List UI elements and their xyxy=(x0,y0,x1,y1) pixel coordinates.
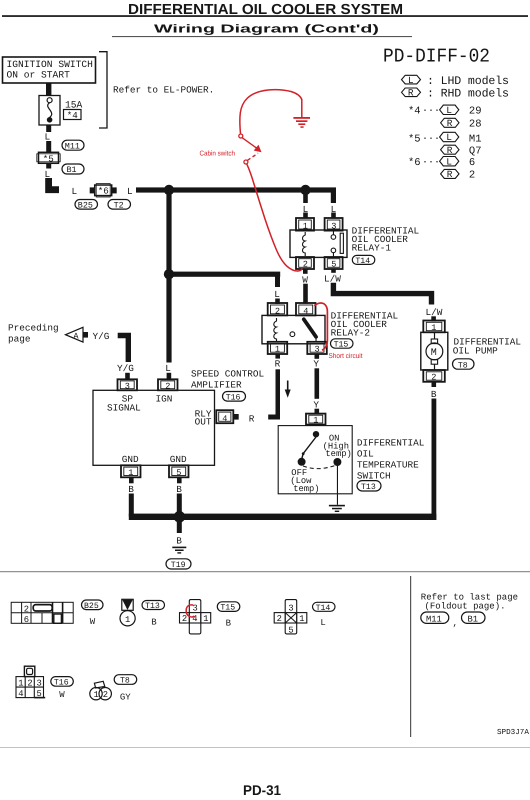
connector B25 oval xyxy=(82,600,104,611)
connector T16 oval bottom xyxy=(51,677,74,688)
connector T14 oval xyxy=(352,255,375,266)
wire bus1 right corner down xyxy=(331,190,336,203)
svg-text:1: 1 xyxy=(18,679,23,689)
svg-text:B1: B1 xyxy=(67,165,77,175)
svg-text:B: B xyxy=(431,389,437,400)
relay2 body xyxy=(262,315,325,343)
amplifier pin 5 gnd xyxy=(169,465,189,478)
svg-text:29: 29 xyxy=(469,106,482,118)
svg-text:IGN: IGN xyxy=(156,393,173,404)
svg-text:R: R xyxy=(447,169,453,180)
svg-text:M11: M11 xyxy=(65,141,80,151)
svg-text:T13: T13 xyxy=(145,602,160,611)
wire stub relay1 pin1 xyxy=(303,213,308,219)
svg-text:Wiring Diagram (Cont'd): Wiring Diagram (Cont'd) xyxy=(154,22,379,35)
svg-text:W: W xyxy=(59,690,65,700)
connector T14 face cross xyxy=(274,600,307,636)
relay2 pin 4 top xyxy=(296,303,316,316)
label ON high temp xyxy=(323,434,352,460)
svg-text:1: 1 xyxy=(128,468,133,478)
node junction bus1 right xyxy=(300,185,310,195)
connector T15 oval xyxy=(331,339,354,350)
svg-text:: RHD models: : RHD models xyxy=(427,88,509,101)
wire fuse down xyxy=(46,125,51,132)
svg-text:L: L xyxy=(446,105,452,116)
svg-text:OIL: OIL xyxy=(357,448,374,459)
svg-text:*5: *5 xyxy=(43,153,54,164)
pump pin 2 xyxy=(423,370,445,383)
svg-text:5: 5 xyxy=(176,468,181,478)
wire bus1 xyxy=(136,187,336,192)
AMPLIFIER xyxy=(93,369,265,517)
separator vertical right xyxy=(410,576,411,737)
arrow down small xyxy=(285,381,291,398)
tempswitch top contact xyxy=(313,431,319,437)
wire stub relay1 pin2 down xyxy=(303,269,308,274)
wire stub pump pin1 xyxy=(431,316,436,321)
relay1 pin 3 top xyxy=(325,218,343,232)
svg-text:6: 6 xyxy=(469,157,475,169)
wire stub relay2 pin2 xyxy=(275,299,280,305)
svg-text:···: ··· xyxy=(422,134,440,145)
arrow A from preceding page xyxy=(66,327,84,342)
svg-text:2: 2 xyxy=(431,373,436,383)
svg-text:M1: M1 xyxy=(469,134,482,146)
svg-text:T8: T8 xyxy=(120,677,130,686)
svg-text:*6: *6 xyxy=(98,186,109,197)
PUMP xyxy=(421,321,522,521)
pump body xyxy=(421,332,448,370)
label tempswitch name xyxy=(357,437,425,481)
svg-text:W: W xyxy=(90,617,96,627)
svg-text:L: L xyxy=(127,186,133,197)
svg-text:L: L xyxy=(72,186,78,197)
wire relay1 pin2 to relay2 pin4 xyxy=(303,284,308,304)
GROUNDBUS xyxy=(129,511,437,570)
star6 row R xyxy=(441,169,476,182)
svg-text:5: 5 xyxy=(288,625,293,635)
svg-text:*4: *4 xyxy=(408,106,421,118)
wire below star5 xyxy=(46,163,51,168)
wire stub amplifier pin3 xyxy=(125,373,130,380)
svg-text:L: L xyxy=(446,156,452,167)
svg-text:temp): temp) xyxy=(293,484,319,494)
tempswitch off contact xyxy=(298,458,306,466)
tempswitch body xyxy=(278,426,352,494)
svg-text:R: R xyxy=(249,414,255,425)
svg-text:R: R xyxy=(275,359,281,370)
svg-text:A: A xyxy=(73,331,79,341)
relay2 coil xyxy=(274,318,277,342)
connector square pin4 xyxy=(234,414,239,420)
star6 row L xyxy=(408,156,475,168)
connector T16 oval xyxy=(223,392,246,403)
wire stub tempswitch pin1 xyxy=(315,409,320,414)
label relay2 name xyxy=(331,311,399,339)
svg-text:B: B xyxy=(151,618,157,628)
svg-text:R: R xyxy=(408,88,414,99)
tempswitch pin 1 xyxy=(306,414,326,426)
wire gnd5 down xyxy=(177,494,182,517)
relay2 blade xyxy=(304,319,316,337)
svg-text:B: B xyxy=(176,484,182,495)
TEMPSWITCH xyxy=(278,414,425,512)
connector B25 oval xyxy=(75,200,98,211)
relay1 pin 2 bottom xyxy=(296,257,314,270)
wire stub gnd1 xyxy=(129,477,134,483)
svg-text:Y/G: Y/G xyxy=(117,363,134,374)
connector T13 oval xyxy=(357,481,381,493)
hexagon R legend xyxy=(402,88,421,99)
svg-text:GY: GY xyxy=(120,693,131,703)
svg-text:1: 1 xyxy=(203,614,208,624)
rule footer xyxy=(0,746,530,749)
svg-text:TEMPERATURE: TEMPERATURE xyxy=(357,459,419,470)
wire YG corner xyxy=(118,336,129,363)
wire xyxy=(46,141,51,153)
motor brush bottom xyxy=(431,360,437,365)
red wire stem xyxy=(301,99,303,117)
svg-text:AMPLIFIER: AMPLIFIER xyxy=(191,380,242,391)
connector square left of star6 xyxy=(90,187,95,193)
svg-text:RELAY-2: RELAY-2 xyxy=(331,328,370,339)
wire bus1 to bus2 vertical xyxy=(166,192,171,273)
node junction bus1 left xyxy=(164,185,174,195)
BOTTOMLEGEND xyxy=(0,571,530,737)
svg-text:L: L xyxy=(274,289,280,300)
svg-text:1: 1 xyxy=(313,416,318,426)
svg-text:Y/G: Y/G xyxy=(93,331,110,342)
node junction bus2 xyxy=(164,269,174,279)
svg-text:R: R xyxy=(447,118,453,129)
svg-text:M11: M11 xyxy=(426,614,442,624)
wire bus2 xyxy=(166,272,280,277)
wire relay2 pin3 down xyxy=(315,368,320,399)
star4 row L xyxy=(408,105,482,118)
svg-text:SPEED CONTROL: SPEED CONTROL xyxy=(191,369,265,380)
box star6 xyxy=(95,184,112,197)
wire corner to right xyxy=(49,178,59,190)
label RLY OUT xyxy=(195,408,212,427)
amplifier pin 3 xyxy=(118,379,138,391)
connector T13 pin face xyxy=(120,599,135,626)
svg-text:2: 2 xyxy=(182,614,187,624)
svg-text:3: 3 xyxy=(37,679,42,689)
svg-text:T15: T15 xyxy=(220,604,235,613)
svg-text:B: B xyxy=(226,618,232,628)
connector T8 oval bottom xyxy=(114,675,137,686)
connector B1 oval bottom xyxy=(462,612,486,624)
wire stub relay2 pin1 down xyxy=(275,354,280,359)
ground symbol T19 xyxy=(172,547,186,554)
amplifier pin 2 xyxy=(158,379,178,391)
svg-text:···: ··· xyxy=(422,157,440,168)
box star4 xyxy=(64,110,82,121)
svg-text:Short circuit: Short circuit xyxy=(329,352,363,360)
star5 row R xyxy=(441,145,482,158)
svg-text:Preceding: Preceding xyxy=(8,323,59,334)
red open circle upper xyxy=(239,134,243,138)
svg-text:temp): temp) xyxy=(325,449,351,459)
red ground symbol xyxy=(293,117,310,128)
label speed control amplifier xyxy=(191,369,265,391)
red dashes xyxy=(248,153,259,160)
node junction ground xyxy=(174,511,186,523)
connector M11 oval bottom xyxy=(421,612,449,624)
connector B25 face xyxy=(11,602,73,625)
svg-text:1: 1 xyxy=(299,614,304,624)
svg-text:T2: T2 xyxy=(114,201,124,211)
svg-text:B25: B25 xyxy=(84,602,99,611)
red pointer line xyxy=(242,138,258,150)
svg-text:T19: T19 xyxy=(171,561,186,570)
relay1 pin 5 bottom xyxy=(325,257,343,270)
svg-text:(Foldout page).: (Foldout page). xyxy=(425,602,506,612)
relay2 pin 3 bottom xyxy=(307,342,327,355)
svg-text:GND: GND xyxy=(122,454,139,465)
wire ground bus xyxy=(129,514,437,520)
svg-text:*5: *5 xyxy=(408,134,421,146)
wire pump down to ground bus xyxy=(432,399,437,521)
wire drop to relay1 pin1 xyxy=(303,192,308,203)
svg-text:L/W: L/W xyxy=(324,273,341,284)
wire stub pump pin2 xyxy=(432,382,437,387)
svg-text:1: 1 xyxy=(275,345,280,355)
amplifier body xyxy=(93,390,215,465)
svg-text:SIGNAL: SIGNAL xyxy=(107,402,141,413)
red sweep curve xyxy=(247,164,302,271)
relay1 pin 1 top xyxy=(296,218,314,232)
svg-text:L: L xyxy=(45,132,51,143)
relay1 contact stubs xyxy=(333,231,334,257)
star4 row R xyxy=(441,118,482,131)
svg-text:5: 5 xyxy=(331,260,336,270)
svg-text:,: , xyxy=(453,619,458,629)
svg-text:T15: T15 xyxy=(334,341,349,350)
HEADER xyxy=(2,2,528,37)
connector T19 oval xyxy=(166,559,191,570)
svg-text:4: 4 xyxy=(192,614,197,624)
svg-text:M: M xyxy=(431,348,437,359)
amplifier pin 1 gnd xyxy=(121,465,141,478)
svg-text:2: 2 xyxy=(103,690,108,700)
svg-text:B: B xyxy=(176,536,182,547)
svg-text:4: 4 xyxy=(222,414,227,424)
fuse F1 xyxy=(39,96,60,126)
tempswitch dashed arc xyxy=(303,466,335,469)
svg-text:5: 5 xyxy=(37,689,42,699)
svg-text:IGNITION SWITCH: IGNITION SWITCH xyxy=(7,59,93,70)
svg-text:T14: T14 xyxy=(355,257,370,266)
connector square arrow xyxy=(83,332,88,338)
ignition switch box xyxy=(3,57,96,83)
wire on contact to ground xyxy=(337,465,338,505)
svg-text:T8: T8 xyxy=(458,361,468,370)
PRECEDING xyxy=(8,323,134,380)
connector square right of star6 xyxy=(112,187,117,193)
svg-text:OUT: OUT xyxy=(195,416,212,427)
svg-text:B25: B25 xyxy=(78,201,93,211)
connector T16 face xyxy=(16,666,45,699)
red loop T15 xyxy=(186,605,194,617)
connector T15 oval bottom xyxy=(217,602,240,613)
wire gnd1 down xyxy=(129,494,134,517)
ground symbol tempswitch xyxy=(329,505,345,512)
hexagon L legend xyxy=(402,75,421,86)
wire bus2 down to amplifier xyxy=(166,276,171,363)
svg-text:*6: *6 xyxy=(408,157,421,169)
svg-text:T14: T14 xyxy=(316,604,331,613)
relay1 coil xyxy=(303,232,306,256)
RELAY1 xyxy=(290,218,443,321)
svg-text:GND: GND xyxy=(170,454,187,465)
BUSES xyxy=(136,185,337,380)
motor brush top xyxy=(431,339,437,344)
svg-text:T13: T13 xyxy=(361,483,376,492)
svg-text:2: 2 xyxy=(469,170,475,182)
connector T13 oval bottom xyxy=(142,601,165,612)
svg-text:Cabin switch: Cabin switch xyxy=(200,150,236,158)
svg-text:2: 2 xyxy=(277,614,282,624)
svg-text:: LHD models: : LHD models xyxy=(427,75,509,88)
relay1 contact circles xyxy=(331,235,336,240)
star5 row L xyxy=(408,132,482,145)
svg-text:L: L xyxy=(408,75,414,86)
motor stem top xyxy=(434,333,435,339)
connector B1 oval xyxy=(62,164,84,175)
wire stub amplifier pin2 xyxy=(167,373,172,380)
amplifier pin 4 xyxy=(216,410,233,424)
pump pin 1 xyxy=(423,321,445,334)
svg-text:ON or START: ON or START xyxy=(7,70,71,81)
connector T15 face cross xyxy=(180,600,211,634)
svg-text:4: 4 xyxy=(18,689,23,699)
svg-text:3: 3 xyxy=(315,345,320,355)
svg-text:1: 1 xyxy=(94,690,99,700)
motor M1 xyxy=(426,343,443,360)
svg-text:R: R xyxy=(447,145,453,156)
label OFF low temp xyxy=(290,468,319,494)
bracket refer xyxy=(99,52,107,128)
connector M11 oval xyxy=(62,140,84,151)
svg-text:Refer to EL-POWER.: Refer to EL-POWER. xyxy=(113,85,214,96)
svg-text:3: 3 xyxy=(288,603,293,613)
svg-text:page: page xyxy=(8,334,31,345)
red curve to cabin switch xyxy=(240,90,302,134)
tempswitch arm xyxy=(302,437,316,459)
relay2 pin 1 bottom xyxy=(268,342,288,355)
wire foot to amplifier rly out xyxy=(268,415,280,420)
tempswitch on contact xyxy=(333,458,341,466)
tempswitch arm joint xyxy=(302,452,305,455)
svg-text:Y: Y xyxy=(313,359,319,370)
svg-text:B: B xyxy=(128,484,134,495)
svg-text:W: W xyxy=(302,274,308,285)
wire relay2 pin1 down xyxy=(276,369,281,414)
connector T2 oval xyxy=(108,200,131,211)
red bracket relay2 xyxy=(314,303,327,350)
wire stub relay1 pin5 down xyxy=(331,269,336,273)
svg-text:*4: *4 xyxy=(67,110,79,121)
svg-text:2: 2 xyxy=(27,679,32,689)
svg-text:PD-31: PD-31 xyxy=(243,782,281,798)
svg-text:RELAY-1: RELAY-1 xyxy=(352,243,392,254)
svg-text:2: 2 xyxy=(24,604,29,614)
RED xyxy=(200,90,363,360)
label refer to last page xyxy=(421,592,518,611)
relay1 armature bar xyxy=(340,233,343,253)
relay2 pin 2 top xyxy=(268,303,288,316)
svg-text:PD-DIFF-02: PD-DIFF-02 xyxy=(383,46,490,68)
svg-text:SWITCH: SWITCH xyxy=(357,470,391,481)
svg-text:L: L xyxy=(320,618,325,628)
svg-text:6: 6 xyxy=(24,615,29,625)
label relay1 name xyxy=(352,226,420,254)
wire relay1 pin5 to pump corner xyxy=(333,283,431,305)
svg-text:28: 28 xyxy=(469,119,482,131)
wire stub relay2 pin3 down xyxy=(315,354,320,359)
motor stem bottom xyxy=(434,364,435,370)
svg-text:T16: T16 xyxy=(226,393,241,402)
connector T8 oval xyxy=(453,359,475,371)
relay1 body xyxy=(290,230,347,257)
svg-text:T16: T16 xyxy=(54,679,69,688)
svg-text:···: ··· xyxy=(422,106,440,117)
wire ignition to fuse xyxy=(46,83,51,96)
svg-text:L: L xyxy=(165,363,171,374)
svg-text:L: L xyxy=(446,132,452,143)
rule under main title xyxy=(2,15,528,17)
svg-text:1: 1 xyxy=(125,615,130,625)
rule under sub title xyxy=(112,36,412,37)
wire stub gnd5 xyxy=(177,477,182,483)
svg-text:2: 2 xyxy=(303,260,308,270)
separator line above legend xyxy=(0,571,530,572)
IGNITION BRANCH xyxy=(3,52,215,211)
FOOTER xyxy=(0,728,530,798)
svg-text:SPD3J7A: SPD3J7A xyxy=(497,728,529,737)
svg-text:B1: B1 xyxy=(468,614,479,624)
RELAY2 xyxy=(262,303,398,420)
relay2 small circle xyxy=(290,332,295,337)
svg-text:DIFFERENTIAL: DIFFERENTIAL xyxy=(357,437,425,448)
wire stub below junction xyxy=(177,522,182,533)
red arrowhead xyxy=(254,145,262,152)
relay2 contact stub pin3 xyxy=(316,337,317,342)
label SP SIGNAL xyxy=(107,393,141,413)
wire stub relay1 pin3 xyxy=(331,213,336,219)
box star5 xyxy=(37,152,60,164)
svg-text:OIL PUMP: OIL PUMP xyxy=(453,345,498,356)
connector T14 oval bottom xyxy=(313,602,336,613)
red open circle lower xyxy=(244,160,248,164)
wire bus2 corner down to relay2 pin2 xyxy=(275,274,280,287)
label preceding page xyxy=(8,323,59,345)
LEGEND xyxy=(383,46,509,182)
svg-text:Q7: Q7 xyxy=(469,146,482,158)
label pump name xyxy=(453,336,522,356)
connector T8 face xyxy=(90,681,112,700)
